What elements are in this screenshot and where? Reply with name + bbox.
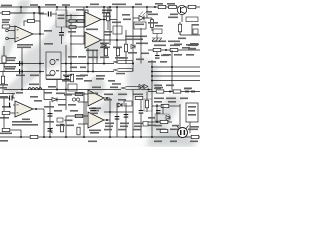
label U1	[17, 44, 33, 46]
wire R1 right	[10, 12, 21, 14]
connector pair	[72, 98, 75, 101]
wire x40 drop	[39, 7, 41, 90]
input terminal J1	[6, 29, 9, 32]
resistor R23 vertical	[60, 124, 63, 132]
wire x44 seg	[43, 90, 45, 100]
wire right bus 3	[152, 75, 200, 77]
label top mid2	[118, 4, 126, 6]
wire x13 cap stub	[12, 94, 14, 99]
junction x110 y112	[109, 111, 111, 113]
feedback resistor R3	[28, 20, 35, 23]
label U3A	[86, 29, 98, 31]
wire U5 in1	[66, 115, 88, 117]
wire row21	[66, 20, 85, 22]
watermark blob center-right	[127, 58, 159, 98]
wire x192 drop	[191, 24, 193, 35]
cap C14	[139, 110, 144, 111]
label left texts2	[5, 60, 15, 62]
wire x157 lower	[156, 104, 158, 122]
resistor R14	[158, 5, 166, 8]
label bottom texts	[105, 123, 114, 125]
label density rbot	[154, 125, 162, 127]
cap C3	[9, 96, 10, 101]
junction y7 x57	[56, 6, 58, 8]
wire U4 out	[104, 97, 110, 99]
label density low	[44, 92, 52, 94]
label R2	[2, 19, 10, 21]
resistor R34 vertical	[116, 48, 119, 56]
component box B5	[153, 29, 162, 34]
junction y7 x117	[116, 6, 118, 8]
diode D4	[118, 103, 122, 107]
resistor R12 vertical	[124, 44, 127, 52]
op-amp U1	[15, 26, 33, 42]
junction x152 y76	[151, 75, 153, 77]
junction x152 y71	[151, 71, 153, 73]
junction y137 x57	[49, 136, 51, 138]
component box B14	[143, 122, 148, 127]
label row50	[182, 47, 190, 49]
wire x180 bottom	[179, 104, 181, 128]
junction x88 y63	[87, 63, 89, 65]
wire x66 col lower	[65, 45, 67, 110]
net flag XT3	[121, 86, 141, 89]
junction y7 x39	[38, 6, 40, 8]
diode D3	[52, 98, 57, 102]
wire U3A out	[101, 19, 117, 21]
component box B7	[193, 29, 198, 34]
wire right row y18	[133, 17, 152, 19]
wire right bus 4	[152, 80, 200, 82]
resistor R30	[191, 135, 199, 138]
resistor R8	[77, 20, 84, 23]
label sprinkle2	[48, 86, 56, 88]
junction U4 out	[106, 97, 108, 99]
wire x34 drop	[33, 13, 35, 22]
junction y7 x104	[103, 6, 105, 8]
junction y50 x166	[165, 49, 167, 51]
wire y106 seg	[152, 105, 161, 107]
junction y71 x22	[21, 71, 23, 73]
label RTL	[0, 133, 12, 135]
wire x44 drop	[43, 109, 45, 137]
junction x133 y63	[132, 63, 134, 65]
shield box B2	[46, 52, 61, 79]
wire x22 mid	[21, 48, 23, 90]
resistor R28	[160, 120, 168, 123]
junction x152 y80	[151, 80, 153, 82]
box B9	[57, 118, 63, 122]
label B3	[112, 22, 121, 24]
resistor R16	[188, 5, 196, 8]
box B11	[144, 99, 152, 111]
wire y35 right	[179, 32, 181, 35]
mic M1	[178, 128, 188, 138]
wire x93	[92, 50, 94, 72]
wire y93.5 left	[0, 93, 15, 95]
label L1	[29, 84, 39, 86]
wire x57 drop	[56, 7, 58, 10]
wire x71 col	[70, 14, 72, 72]
wire U3B in2	[70, 43, 85, 45]
box B8	[68, 84, 77, 91]
label density bot	[54, 110, 62, 112]
label right of row50	[188, 45, 198, 47]
junction y7 x39b	[38, 6, 40, 8]
junction y137 x44	[43, 136, 45, 138]
cap C6	[48, 12, 49, 17]
wire x110 bottom	[109, 98, 111, 137]
watermark tail left	[4, 66, 42, 96]
resistor R6	[2, 128, 10, 131]
label B1	[58, 15, 65, 17]
wire x50 col	[49, 101, 51, 137]
speaker box B13	[186, 103, 198, 122]
wire x39 drop	[38, 7, 40, 14]
wire x66 bottom	[65, 116, 67, 137]
resistor R5	[2, 111, 10, 114]
junction U2 out	[35, 108, 37, 110]
wire R5 to U2	[10, 112, 15, 114]
label y45 texts	[100, 47, 110, 49]
wire right bus 2	[152, 71, 200, 73]
label density mid3	[68, 56, 77, 58]
wire x84 bottom	[83, 94, 85, 137]
wire x110	[109, 7, 111, 45]
box B10	[124, 101, 132, 106]
wire x21 drop	[20, 7, 22, 13]
label r13b	[125, 36, 147, 38]
label top mid1	[90, 4, 99, 6]
label Q1	[170, 14, 178, 16]
resistor R2	[2, 25, 10, 28]
inductor L1	[28, 88, 42, 90]
diode D8	[131, 45, 135, 49]
wire x84 drop top	[83, 7, 85, 44]
wire y105 from cap	[9, 103, 10, 108]
resistor R27	[161, 104, 169, 107]
diode D7	[166, 116, 170, 120]
label mid small	[76, 75, 85, 77]
junction x88 y71	[87, 71, 89, 73]
wire right bus 1	[152, 66, 200, 68]
resistor R19	[170, 48, 178, 51]
junction y7 x110	[109, 6, 111, 8]
resistor R36 vertical	[2, 56, 6, 63]
wire x88 upper	[87, 48, 89, 72]
resistor R31	[156, 90, 164, 93]
label U2	[12, 121, 32, 123]
cap C7	[59, 32, 64, 33]
cap C13	[124, 114, 129, 115]
wire U3B out	[101, 39, 126, 41]
resistor R9	[69, 26, 76, 29]
wire U4 in1	[66, 93, 88, 95]
wire x61 drop	[61, 27, 63, 32]
wire R6 right	[10, 129, 21, 131]
label mid texts	[136, 43, 148, 45]
watermark band bottom-right upper	[146, 96, 184, 135]
resistor R1	[2, 11, 10, 14]
wire diode row	[44, 99, 52, 101]
junction x66 y63	[65, 63, 67, 65]
resistor R17 vertical	[178, 24, 181, 32]
component box B1	[56, 10, 67, 27]
label right mid texts	[154, 98, 164, 100]
junction x152 y137	[151, 136, 153, 138]
wire U2 in top	[13, 104, 15, 106]
watermark stripe top-center	[40, 12, 80, 48]
wire x152 top	[151, 18, 153, 20]
label TP row91	[155, 87, 163, 89]
resistor R29	[160, 129, 168, 132]
wire x126	[125, 30, 127, 44]
op-amp U5	[88, 112, 104, 128]
junction y137 x21	[20, 136, 22, 138]
wire bottom bus y137	[0, 136, 200, 138]
label R13	[148, 14, 158, 16]
wire x190 bottom	[189, 122, 191, 133]
junction U1 out	[39, 33, 41, 35]
junction x66 y137	[65, 136, 67, 138]
op-amp U2	[15, 101, 33, 117]
label density mid	[44, 30, 52, 32]
resistor R11 vertical	[106, 13, 109, 21]
wire x133	[132, 7, 134, 72]
input terminal J2	[6, 37, 9, 40]
op-amp U1 feedback wire	[24, 21, 40, 34]
wire right row y50	[148, 49, 200, 51]
wire x97	[96, 50, 98, 64]
label density top	[30, 4, 38, 6]
junction x40 y71	[39, 71, 41, 73]
net flag XT2	[113, 68, 133, 71]
resistor R18	[153, 48, 161, 51]
cap C12	[115, 116, 120, 117]
watermark tail center-right	[94, 88, 132, 116]
label density bot2	[56, 125, 65, 127]
junction y7 x66	[65, 6, 67, 8]
cap C15	[156, 110, 161, 111]
wire x141 upper	[140, 28, 142, 64]
label density low3	[0, 84, 8, 86]
junction y122 x157	[156, 121, 158, 123]
wire x62 stub	[61, 123, 63, 125]
watermark band top-left	[0, 0, 31, 62]
wire x180	[179, 22, 181, 24]
label y129-133 right	[148, 125, 156, 127]
zener D9	[102, 44, 106, 48]
junction U5 out	[106, 119, 108, 121]
wire left y13	[0, 12, 44, 14]
label misc top	[102, 10, 112, 12]
label C-row1	[4, 57, 16, 59]
junction y91 x170	[169, 91, 171, 93]
resistor R35	[30, 135, 38, 138]
junction U3A out x104	[103, 19, 105, 21]
junction y63 x22	[21, 63, 23, 65]
net flag XT1	[113, 60, 133, 63]
op-amp U3B	[85, 32, 101, 48]
watermark wedge bottom-right	[146, 128, 195, 147]
junction x133 y137	[132, 136, 134, 138]
component box B3	[113, 26, 122, 34]
wire x152 bottom	[151, 96, 153, 137]
wire left x3	[2, 72, 4, 77]
wire U2 out	[33, 108, 44, 110]
junction y7 x155	[154, 6, 156, 8]
ground hatch B5	[152, 34, 162, 42]
op-amp U3A	[85, 12, 101, 27]
label B4	[135, 24, 144, 26]
label TP2	[45, 4, 56, 6]
label density low2	[58, 104, 66, 106]
label density top2	[104, 31, 112, 33]
label right texts	[154, 45, 166, 47]
cap C4	[48, 113, 53, 114]
wire x117	[116, 7, 118, 64]
resistor R20 vertical	[70, 74, 73, 82]
connector left	[51, 128, 54, 133]
wire x152 bus drop	[151, 60, 153, 96]
label U4	[89, 108, 101, 110]
wire top supply bus y7	[0, 6, 200, 8]
label U5	[89, 130, 101, 132]
junction y106 x157	[156, 105, 158, 107]
junction x40 y63	[39, 63, 41, 65]
polar cap C1	[16, 63, 22, 65]
polar cap C2	[19, 69, 20, 74]
label row93	[88, 93, 98, 95]
label bottom right texts	[156, 129, 166, 131]
junction x66 y71	[65, 71, 67, 73]
label C-row1b	[4, 66, 16, 68]
label XT3	[112, 83, 121, 85]
vertical resistor R26	[145, 100, 148, 108]
junction x126 y137	[125, 136, 127, 138]
label density bot3	[0, 117, 9, 119]
wire mid y89.5 bus	[4, 89, 121, 91]
wire x133 bottom	[132, 90, 134, 138]
label top right1	[155, 3, 163, 5]
junction x104 y63	[103, 63, 105, 65]
wire U5 out	[104, 119, 110, 121]
resistor R13 vertical	[150, 20, 153, 28]
resistor R33 vertical	[104, 48, 107, 56]
junction x71 y63	[70, 63, 72, 65]
wire x141 bottom	[140, 96, 142, 110]
wire x147	[146, 7, 148, 18]
label density mid2	[163, 54, 171, 56]
junction x57 y89	[56, 89, 58, 91]
junction y89 x22	[21, 89, 23, 91]
wire x86 link	[85, 102, 87, 124]
junction y7 x147	[146, 6, 148, 8]
wire mid y63.5 bus	[0, 63, 44, 65]
wire y112 seg	[104, 111, 133, 113]
resistor R10 vertical	[85, 10, 88, 17]
wire x34 to opamp	[30, 21, 34, 23]
wire U4 in2	[78, 101, 88, 103]
junction y7 x21	[20, 6, 22, 8]
junction x141 y137	[140, 136, 142, 138]
resistor R25	[135, 96, 143, 99]
wire left col x4	[3, 46, 5, 56]
optocoupler box B4	[134, 22, 146, 29]
wire x66 col	[65, 7, 67, 27]
label density right	[154, 85, 162, 87]
wire x117 bottom	[116, 103, 118, 137]
wire U3B in1	[70, 35, 85, 37]
electrolytic C9	[50, 70, 55, 75]
cap C16	[92, 108, 97, 109]
wire x104	[103, 7, 105, 64]
wire x172 drop	[171, 50, 173, 92]
electrolytic C8	[50, 59, 55, 64]
label R5	[2, 106, 11, 108]
component box B6	[186, 17, 198, 22]
label mid row texts	[76, 93, 85, 95]
wire mid y71.5 bus	[0, 71, 44, 73]
box B12 dashed	[155, 114, 169, 121]
watermark blob low-mid	[89, 76, 105, 96]
wire x57 seg	[56, 80, 58, 90]
junction y13 x34	[33, 12, 35, 14]
wire U1 out	[33, 33, 44, 35]
resistor R24 vertical	[77, 127, 80, 135]
junction x84 y137	[83, 136, 85, 138]
wire R2 right	[10, 26, 15, 28]
wire x147 mid	[146, 92, 148, 113]
junction y89 x148	[148, 89, 150, 91]
resistor R32	[173, 90, 181, 93]
wire x126 bottom	[125, 103, 127, 137]
resistor R15	[169, 5, 177, 8]
wire x108 stub	[107, 7, 109, 13]
junction y7 x133	[132, 6, 134, 8]
label sprinkle	[112, 4, 119, 6]
junction x93 y71	[92, 71, 94, 73]
diode pair D5 D6	[139, 85, 143, 89]
label U3B	[86, 50, 98, 52]
label XT2	[116, 73, 125, 75]
label y57 texts	[88, 57, 98, 59]
label XT1	[119, 57, 128, 59]
wire y122	[148, 121, 172, 123]
resistor R21	[75, 92, 83, 95]
watermark blob mid	[86, 38, 104, 60]
LED D1	[139, 16, 144, 21]
wire row27	[66, 26, 85, 28]
connector marks y91	[185, 91, 189, 93]
cap C5	[48, 128, 53, 129]
resistor R22	[75, 114, 83, 117]
wire x163 lower	[162, 104, 164, 114]
label TP1	[1, 5, 12, 7]
op-amp U4	[88, 90, 104, 106]
resistor R7	[69, 20, 76, 23]
junction x110 y137	[109, 136, 111, 138]
junction x152 y67	[151, 66, 153, 68]
label far right	[190, 126, 199, 128]
wire Q1 base drop	[181, 15, 183, 22]
cap C10	[155, 55, 160, 56]
resistor R4 vertical	[1, 76, 4, 84]
wire y14 seg	[39, 13, 47, 15]
watermark blob center-left	[16, 35, 75, 76]
junction U3B out x117	[116, 39, 118, 41]
label density right2	[148, 61, 156, 63]
